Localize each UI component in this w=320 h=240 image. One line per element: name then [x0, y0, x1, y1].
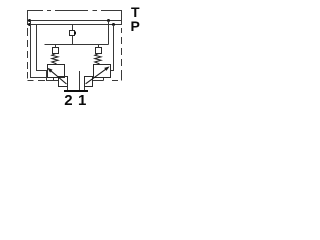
valve L lower box — [59, 77, 68, 87]
T line — [27, 20, 122, 22]
enclosure dashed border bottom — [28, 80, 119, 82]
valve R pilot piston — [96, 48, 102, 54]
component X1 plug square — [70, 31, 75, 36]
wire T-branch right down to pilot line — [108, 21, 110, 45]
wire stub under left envelope — [53, 78, 55, 81]
wire middle drop — [79, 71, 81, 91]
wire V2 P-branch staircase to left valve inlet — [37, 25, 59, 81]
wire P-branch right down to right valve side — [111, 25, 114, 71]
wire V1 T-branch down to left valve outlet — [31, 21, 48, 78]
wire port 2 drop — [67, 86, 69, 91]
valve L spring — [52, 54, 58, 64]
enclosure dashed border right — [121, 11, 123, 81]
P line — [27, 24, 122, 26]
mounting face bar — [64, 90, 88, 92]
node T-left — [28, 19, 31, 22]
node P-right — [112, 23, 115, 26]
wire port 1 drop — [84, 86, 86, 91]
valve R lower box — [85, 77, 93, 87]
node T-right — [107, 19, 110, 22]
svg-text:2: 2 — [64, 92, 72, 109]
valve L envelope — [48, 65, 65, 78]
svg-text:P: P — [131, 18, 140, 34]
valve L pilot piston stub — [55, 45, 57, 48]
valve L arrow — [49, 69, 67, 84]
wire stub under right envelope — [93, 78, 104, 81]
valve R envelope — [94, 65, 111, 78]
valve R arrow — [86, 67, 109, 84]
node P-left — [28, 23, 31, 26]
valve L pilot piston — [53, 48, 59, 54]
component X1 plug nub — [74, 32, 76, 35]
valve R spring — [95, 54, 101, 64]
component X1 plug stubs — [72, 25, 74, 45]
wire pilot line across — [45, 44, 109, 46]
enclosure dashed border top — [27, 10, 122, 12]
svg-text:1: 1 — [78, 92, 86, 109]
enclosure dashed border left — [27, 11, 29, 79]
valve R pilot piston stub — [98, 45, 100, 48]
